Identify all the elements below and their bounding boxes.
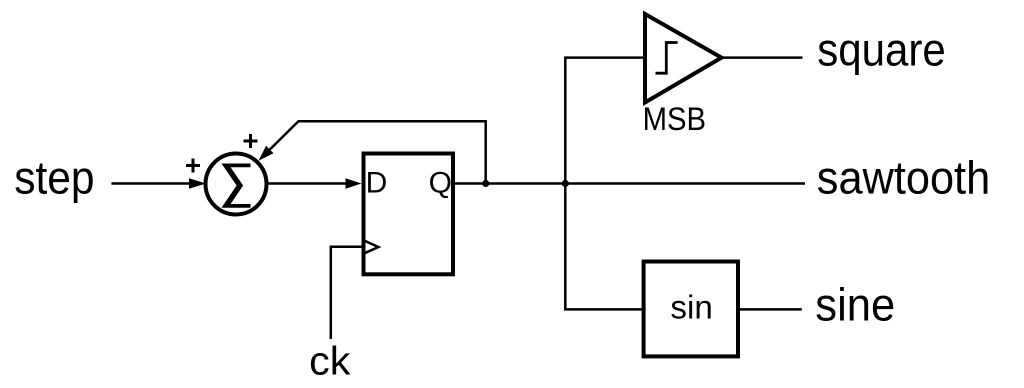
wire step input [111,182,189,185]
plus sign left of summer [186,159,200,173]
flip-flop U2 [364,154,454,275]
junction node B [562,180,569,187]
svg-text:MSB: MSB [643,101,707,137]
sin block U4 [644,262,738,357]
arrowhead feedback into summer [259,146,274,161]
svg-text:Q: Q [429,166,452,199]
wire square output [723,56,803,59]
svg-text:sawtooth: sawtooth [817,152,990,204]
sigma glyph [222,164,251,208]
svg-text:D: D [366,166,388,199]
wire branch to comparator and sin [565,58,643,310]
wire sine output [738,308,802,311]
svg-text:square: square [817,24,946,76]
junction node A [482,180,489,187]
svg-text:sine: sine [815,278,895,330]
clock edge triangle [364,240,379,253]
comparator U3 [645,14,722,103]
plus sign top of summer [244,134,258,148]
svg-text:ck: ck [309,339,351,383]
svg-text:step: step [14,152,94,204]
arrowhead into summer [189,178,206,189]
wire ck input [331,247,362,339]
wire Q output to sawtooth [453,182,805,185]
wire feedback from Q to summer [270,121,486,183]
arrowhead into D [346,178,362,189]
summer circle U1 [206,154,267,215]
svg-text:sin: sin [670,289,712,326]
step function symbol [656,43,678,74]
wire summer to D input [267,182,347,185]
